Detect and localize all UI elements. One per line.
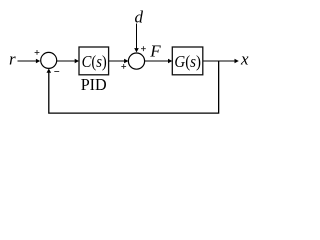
- svg-text:G(s): G(s): [174, 52, 201, 71]
- svg-text:F: F: [149, 42, 161, 61]
- svg-text:C(s): C(s): [82, 52, 107, 71]
- svg-text:r: r: [9, 50, 16, 69]
- svg-text:PID: PID: [81, 75, 107, 94]
- svg-text:x: x: [240, 50, 249, 69]
- svg-text:d: d: [135, 7, 144, 26]
